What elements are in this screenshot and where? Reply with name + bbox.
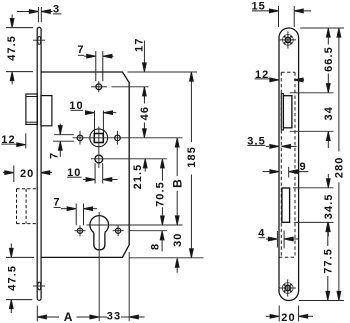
svg-text:7: 7	[53, 197, 60, 209]
euro profile cylinder hole	[90, 216, 109, 250]
svg-text:70.5: 70.5	[155, 181, 167, 207]
svg-text:47.5: 47.5	[6, 265, 18, 291]
svg-text:77.5: 77.5	[322, 248, 334, 274]
svg-text:34: 34	[323, 106, 335, 120]
svg-text:7: 7	[77, 44, 84, 56]
faceplate strip (side view)	[37, 27, 41, 300]
dim 8 (cylinder to screw)	[160, 231, 164, 252]
extension lines right side	[290, 28, 344, 301]
deadbolt thrown position (dashed)	[17, 189, 37, 224]
dim 77.5 (deadbolt to plate bottom)	[326, 223, 330, 301]
dim 17 (vertical, case top to spindle)	[143, 41, 147, 99]
latch housing inside case	[41, 96, 52, 126]
svg-text:10: 10	[69, 100, 83, 112]
case right edge extension down	[128, 252, 130, 321]
follower hub circle	[90, 129, 108, 147]
dim 4	[258, 231, 298, 249]
dim 47.5 bottom left	[6, 244, 34, 314]
cylinder vertical axis	[98, 212, 100, 321]
dim 15 (plate top width)	[252, 6, 311, 27]
svg-text:34.5: 34.5	[323, 193, 335, 219]
follower square	[94, 134, 103, 143]
svg-text:3: 3	[53, 3, 60, 15]
lock case behind plate (dashed)	[279, 72, 295, 257]
latch (front view) flange	[281, 94, 283, 130]
dim 7 (cylinder screw diameter)	[54, 204, 98, 226]
svg-text:47.5: 47.5	[6, 35, 18, 61]
deadbolt cutout	[282, 188, 290, 222]
dim 21.5 (follower to lower hole)	[143, 159, 147, 172]
dim 46 (spindle to follower)	[143, 96, 147, 138]
dim 20 (plate width bottom)	[266, 306, 313, 322]
dim 33 (axis to case edge)	[99, 315, 144, 319]
dim 47.5 top left	[6, 15, 33, 85]
plate screw bottom	[280, 279, 296, 296]
dim 20 (deadbolt throw)	[3, 166, 52, 183]
faceplate screw hole (side view, bottom)	[33, 282, 45, 290]
dim 34.5 (deadbolt cutout)	[326, 174, 330, 237]
dim 185 (case height)	[190, 72, 194, 258]
lock case outline	[41, 72, 129, 257]
cylinder horizontal centerline	[87, 224, 183, 226]
svg-text:33: 33	[107, 311, 121, 323]
dim 12 (latch protrusion)	[1, 133, 26, 148]
plate screw top	[280, 31, 296, 48]
dim 280 (plate height)	[337, 28, 341, 300]
follower side hole right	[115, 131, 121, 145]
svg-text:10: 10	[67, 167, 81, 179]
svg-text:8: 8	[150, 243, 162, 250]
follower horizontal centerline	[73, 137, 183, 139]
dim 9	[263, 167, 309, 178]
latch bolt (protruding)	[26, 94, 37, 124]
svg-text:46: 46	[139, 106, 151, 120]
dim 34 (latch cutout)	[326, 132, 330, 149]
faceplate (front view)	[279, 28, 299, 301]
svg-text:15: 15	[251, 0, 265, 12]
dim 7 (spindle diameter)	[78, 51, 114, 81]
svg-text:3.5: 3.5	[247, 135, 266, 147]
svg-text:4: 4	[258, 227, 265, 239]
cylinder screw centerline extension	[130, 230, 168, 232]
dim 10 (lower hole diameter)	[67, 163, 117, 183]
cylinder screw hole left	[75, 225, 86, 236]
dim 7 (side hole diameter, left)	[53, 124, 74, 157]
case bottom extension line right	[129, 257, 203, 259]
svg-text:280: 280	[334, 156, 346, 178]
svg-text:185: 185	[186, 146, 198, 168]
dim 70.5 (lower hole to cylinder)	[161, 159, 165, 225]
follower side hole left	[77, 131, 83, 145]
dim 66.5 (plate top to latch)	[326, 28, 330, 92]
svg-text:21.5: 21.5	[132, 164, 144, 190]
svg-text:B: B	[171, 179, 185, 188]
spindle center extension	[112, 86, 149, 88]
svg-text:20: 20	[281, 312, 295, 323]
dim 30 (screw to case bottom)	[175, 258, 179, 272]
dim B (follower to cylinder)	[175, 138, 179, 225]
svg-text:A: A	[64, 310, 73, 323]
dimensions left drawing	[1, 3, 198, 323]
svg-text:20: 20	[20, 168, 34, 180]
svg-text:30: 30	[172, 232, 184, 246]
svg-text:12: 12	[1, 134, 15, 146]
svg-text:17: 17	[134, 38, 146, 52]
latch (front view) head	[283, 96, 292, 128]
svg-text:9: 9	[299, 161, 306, 173]
dim 3.5 (plate to case)	[247, 145, 296, 149]
faceplate screw hole (side view, top)	[33, 36, 45, 44]
dim 10 (follower square, top)	[71, 110, 117, 133]
dim 3 (faceplate thickness)	[17, 7, 62, 22]
svg-text:12: 12	[255, 69, 269, 81]
case top extension line right	[128, 71, 198, 73]
lower hole center extension	[91, 158, 167, 160]
svg-text:66.5: 66.5	[323, 46, 335, 72]
dim A (backset)	[37, 306, 99, 322]
cylinder screw hole right	[113, 225, 124, 236]
spindle hole	[91, 81, 107, 92]
svg-text:7: 7	[48, 152, 60, 159]
lower spindle hole	[95, 127, 103, 169]
dim 12 (case width, dashed)	[255, 78, 305, 82]
